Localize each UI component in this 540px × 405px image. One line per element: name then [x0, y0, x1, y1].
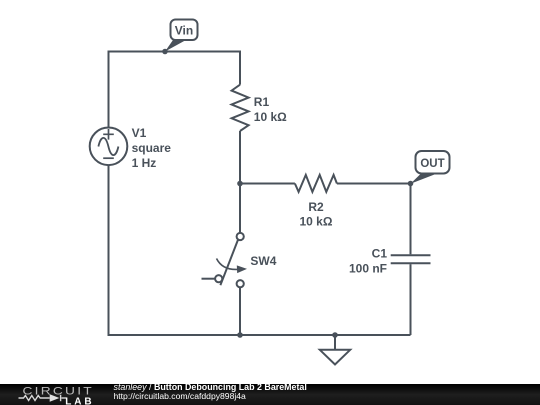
switch SW4 — [202, 233, 248, 287]
svg-text:10 kΩ: 10 kΩ — [300, 215, 333, 229]
junction dot: switch bottom rail — [237, 332, 243, 338]
junction dot: node A — [237, 181, 243, 187]
junction dot: OUT — [408, 181, 414, 187]
capacitor C1 — [391, 255, 431, 263]
junction dot: Vin tap — [162, 49, 168, 55]
svg-text:Vin: Vin — [175, 23, 193, 37]
svg-text:1 Hz: 1 Hz — [132, 156, 157, 170]
label V1 value — [132, 126, 172, 170]
node flag OUT — [411, 151, 450, 184]
svg-text:100 nF: 100 nF — [349, 262, 387, 276]
wire: C1 to ground rail — [410, 264, 412, 335]
wire: node A to R2 — [240, 183, 295, 185]
voltage source V1 (square, 1 Hz) — [90, 128, 128, 166]
wire: R1 bottom to node A — [239, 131, 241, 184]
svg-text:C1: C1 — [372, 247, 388, 261]
node flag Vin — [165, 20, 198, 52]
CircuitLab logo — [0, 383, 100, 405]
footer title text — [114, 383, 307, 402]
wire: R1 branch upper stub — [239, 51, 241, 85]
svg-text:CIRCUIT: CIRCUIT — [23, 385, 94, 397]
svg-text:10 kΩ: 10 kΩ — [254, 110, 287, 124]
wire: left branch lower (V1 to bottom rail) — [108, 165, 110, 335]
junction dot: ground tap — [332, 332, 338, 338]
ground — [320, 335, 350, 365]
label SW4 — [250, 254, 276, 268]
svg-text:R2: R2 — [308, 200, 324, 214]
svg-text:R1: R1 — [254, 95, 270, 109]
svg-text:square: square — [132, 141, 172, 155]
label R1 value — [254, 95, 287, 124]
svg-text:V1: V1 — [132, 126, 147, 140]
wire: left branch upper (top wire to V1) — [108, 51, 110, 128]
resistor R1 — [232, 85, 249, 131]
label C1 value — [349, 247, 387, 276]
wire: top horizontal Vin net — [109, 51, 241, 53]
label R2 value — [300, 200, 333, 229]
resistor R2 — [295, 175, 337, 192]
wire: bottom ground rail — [108, 334, 411, 336]
svg-text:SW4: SW4 — [250, 254, 276, 268]
wire: node A to switch top — [239, 184, 241, 233]
svg-text:OUT: OUT — [420, 158, 444, 170]
wire: OUT node to C1 — [410, 184, 412, 255]
wire: R2 to OUT node — [337, 183, 411, 185]
wire: switch bottom to ground rail — [239, 287, 241, 335]
svg-text:LAB: LAB — [65, 397, 94, 405]
